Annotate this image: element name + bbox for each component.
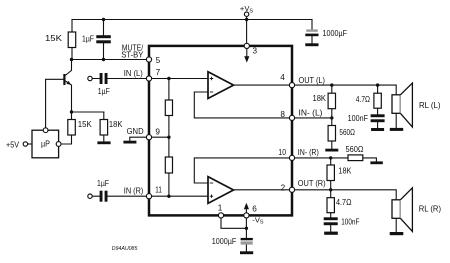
svg-text:RL (R): RL (R) <box>419 205 441 214</box>
svg-text:1000µF: 1000µF <box>212 237 237 246</box>
svg-text:1µF: 1µF <box>97 179 109 188</box>
svg-text:5: 5 <box>156 56 161 65</box>
svg-text:10: 10 <box>278 148 286 157</box>
svg-text:7: 7 <box>156 68 161 77</box>
svg-text:2: 2 <box>281 183 286 192</box>
svg-text:OUT (L): OUT (L) <box>299 76 326 85</box>
svg-text:6: 6 <box>252 204 257 213</box>
svg-text:+VS: +VS <box>240 4 254 14</box>
svg-text:1000µF: 1000µF <box>323 29 348 38</box>
svg-text:9: 9 <box>155 128 160 137</box>
svg-text:IN- (L): IN- (L) <box>299 109 323 118</box>
svg-text:GND: GND <box>127 127 144 136</box>
svg-text:+5V: +5V <box>6 140 19 149</box>
svg-text:11: 11 <box>155 185 162 194</box>
svg-text:1µF: 1µF <box>82 35 94 44</box>
svg-text:-VS: -VS <box>252 215 264 225</box>
svg-text:18K: 18K <box>109 120 123 129</box>
svg-text:18K: 18K <box>338 166 351 175</box>
svg-text:18K: 18K <box>313 94 327 103</box>
svg-text:3: 3 <box>253 47 258 56</box>
svg-text:D94AU085: D94AU085 <box>112 246 138 252</box>
svg-text:IN- (R): IN- (R) <box>298 148 319 157</box>
svg-text:OUT (R): OUT (R) <box>298 179 326 188</box>
svg-text:4.7Ω: 4.7Ω <box>356 95 370 104</box>
svg-text:ST-BY: ST-BY <box>121 51 143 60</box>
svg-text:1µF: 1µF <box>98 87 110 96</box>
svg-text:4: 4 <box>280 73 285 82</box>
svg-text:8: 8 <box>280 110 285 119</box>
svg-text:15K: 15K <box>45 34 63 43</box>
svg-text:µP: µP <box>41 140 50 149</box>
svg-text:100nF: 100nF <box>348 114 368 123</box>
svg-text:4.7Ω: 4.7Ω <box>336 198 352 207</box>
svg-text:560Ω: 560Ω <box>339 128 355 137</box>
svg-text:IN (R): IN (R) <box>124 187 144 196</box>
svg-text:100nF: 100nF <box>341 218 359 227</box>
svg-text:IN (L): IN (L) <box>124 69 143 78</box>
svg-text:560Ω: 560Ω <box>346 145 364 154</box>
svg-text:1: 1 <box>218 204 223 213</box>
svg-text:RL (L): RL (L) <box>419 101 441 110</box>
svg-text:15K: 15K <box>78 120 93 129</box>
